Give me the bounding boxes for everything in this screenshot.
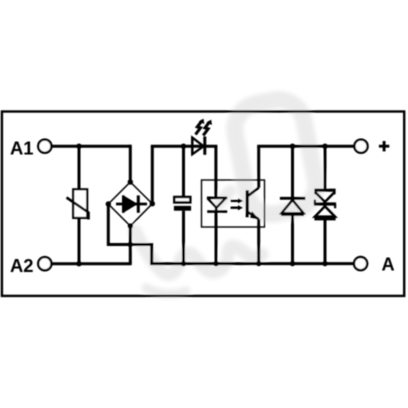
wire internal top rail left <box>151 145 218 148</box>
wire capacitor branch top <box>182 146 185 196</box>
node diode bottom junction <box>290 261 295 266</box>
node diode top junction <box>290 144 295 149</box>
node capacitor top junction <box>181 144 186 149</box>
node TVS top junction <box>322 144 327 149</box>
diode <box>280 198 305 214</box>
node varistor bottom junction <box>76 261 81 266</box>
wire TVS branch bottom <box>324 219 327 264</box>
node opto LED bottom junction <box>213 261 218 266</box>
capacitor C1 <box>174 197 191 211</box>
wire collector riser <box>257 146 260 188</box>
wire varistor branch top <box>78 146 81 189</box>
svg-text:A: A <box>382 255 395 275</box>
node jog crossover blob <box>128 242 133 247</box>
wire bridge left vertex jog <box>108 204 151 264</box>
node varistor top junction <box>76 144 81 149</box>
wire internal bottom rail <box>150 262 354 265</box>
node emitter bottom junction <box>256 261 261 266</box>
wire opto LED branch <box>214 146 217 197</box>
terminal A2 circle <box>38 257 51 270</box>
varistor <box>67 189 89 219</box>
wire A1 top rail <box>51 145 130 148</box>
svg-text:A1: A1 <box>10 138 34 159</box>
wire TVS branch top <box>324 146 327 190</box>
wire internal top rail right <box>257 145 354 148</box>
wire bridge right vertex riser <box>151 146 154 204</box>
wire opto LED cathode to bottom rail <box>215 212 218 264</box>
LED indicator <box>192 119 212 155</box>
wire bridge top lead <box>129 145 132 182</box>
wire diode branch bottom <box>291 214 294 263</box>
optocoupler <box>202 180 265 227</box>
wire emitter to bottom rail <box>257 219 260 264</box>
terminal A1 circle <box>38 140 51 153</box>
node TVS bottom junction <box>322 261 327 266</box>
module outline <box>2 112 404 296</box>
background watermark (decorative) <box>135 95 320 294</box>
svg-text:A2: A2 <box>10 255 34 276</box>
wire bridge bottom to A2 rail <box>129 226 132 264</box>
TVS suppressor diode <box>314 190 336 219</box>
terminal + label <box>379 141 389 151</box>
wire capacitor branch bottom <box>182 211 185 264</box>
node capacitor bottom junction <box>181 261 186 266</box>
wire diode branch top <box>291 146 294 197</box>
wire A2 bottom rail <box>51 262 131 265</box>
terminal A circle <box>354 257 367 270</box>
bridge rectifier <box>106 179 155 228</box>
terminal + circle <box>354 140 367 153</box>
wire varistor branch bottom <box>78 218 81 264</box>
